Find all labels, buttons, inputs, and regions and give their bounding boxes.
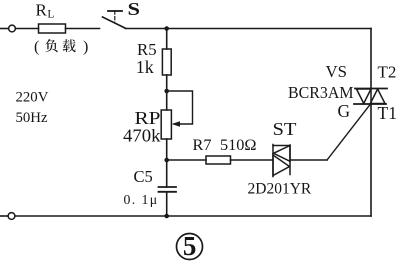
label 470k bbox=[123, 126, 161, 146]
figure number 5 badge bbox=[177, 231, 203, 261]
wire RP rheostat loop bbox=[167, 91, 193, 124]
svg-text:470k: 470k bbox=[123, 126, 161, 146]
label (fuzai) load bbox=[34, 39, 88, 56]
label 50Hz bbox=[16, 110, 48, 126]
potentiometer RP body bbox=[161, 110, 171, 139]
label S bbox=[128, 0, 141, 19]
wire R7 to ST bbox=[231, 159, 274, 161]
label 0.1u bbox=[124, 192, 159, 207]
svg-text:0. 1μ: 0. 1μ bbox=[124, 192, 159, 207]
svg-text:C5: C5 bbox=[134, 167, 153, 186]
label VS bbox=[326, 62, 347, 81]
wire R5 to RP bbox=[166, 75, 168, 110]
wire RL to switch bbox=[66, 28, 100, 30]
node junction R7/C5 bbox=[164, 158, 169, 163]
svg-text:2D201YR: 2D201YR bbox=[248, 180, 312, 197]
wire right vertical lower (triac T1 to bottom) bbox=[370, 104, 372, 216]
label RP bbox=[135, 108, 161, 128]
resistor R7 bbox=[206, 156, 231, 164]
label 2D201YR bbox=[248, 180, 312, 197]
svg-text:G: G bbox=[338, 101, 351, 121]
label 1k bbox=[136, 57, 154, 77]
svg-text:50Hz: 50Hz bbox=[16, 110, 48, 126]
terminal top-left bbox=[9, 25, 16, 32]
resistor RL bbox=[39, 24, 66, 33]
label T2 bbox=[378, 63, 397, 82]
node junction RP top loop bbox=[164, 89, 169, 94]
wire switch to right corner bbox=[126, 28, 372, 30]
switch S blade bbox=[103, 17, 126, 28]
svg-text:R7510Ω: R7510Ω bbox=[193, 135, 257, 154]
label G bbox=[338, 101, 351, 121]
svg-text:VS: VS bbox=[326, 62, 347, 81]
switch S contact bar bbox=[108, 11, 122, 23]
wire ST to gate bend bbox=[290, 159, 327, 161]
svg-text:T1: T1 bbox=[378, 103, 397, 123]
wire bottom-left stub bbox=[0, 215, 8, 217]
label C5 bbox=[134, 167, 153, 186]
svg-text:220V: 220V bbox=[16, 90, 49, 106]
wire top-left stub bbox=[0, 28, 8, 30]
svg-text:): ) bbox=[83, 39, 88, 56]
resistor R5 bbox=[162, 49, 171, 75]
wire terminal to RL bbox=[16, 28, 39, 30]
svg-text:T2: T2 bbox=[378, 63, 397, 82]
wire right vertical upper (to triac T2) bbox=[370, 29, 372, 89]
svg-text:BCR3AM: BCR3AM bbox=[288, 83, 354, 102]
label ST bbox=[273, 119, 297, 139]
label BCR3AM bbox=[288, 83, 354, 102]
wire bottom horizontal bbox=[15, 215, 371, 217]
wire node to R7 bbox=[167, 159, 206, 161]
triac VS bbox=[354, 89, 387, 105]
capacitor C5 bbox=[159, 187, 177, 192]
svg-text:(: ( bbox=[34, 39, 39, 56]
wire C5 to bottom bbox=[166, 192, 168, 216]
svg-text:ST: ST bbox=[273, 119, 297, 139]
node junction C5 bottom bbox=[164, 214, 169, 219]
diac ST bbox=[273, 145, 290, 177]
wire junction to R5 bbox=[166, 29, 168, 50]
svg-text:1k: 1k bbox=[136, 57, 154, 77]
potentiometer RP wiper arrow bbox=[172, 121, 181, 126]
terminal bottom-left bbox=[8, 213, 15, 220]
label RL bbox=[36, 1, 55, 21]
wire RP to C5 node bbox=[166, 139, 168, 187]
label R7 510ohm bbox=[193, 135, 257, 154]
label 220V bbox=[16, 90, 49, 106]
svg-text:5: 5 bbox=[183, 231, 197, 261]
label R5 bbox=[137, 40, 157, 59]
label T1 bbox=[378, 103, 397, 123]
node junction top of R5 branch bbox=[164, 26, 169, 31]
svg-text:S: S bbox=[128, 0, 141, 19]
wire gate diagonal to triac bbox=[327, 104, 371, 160]
